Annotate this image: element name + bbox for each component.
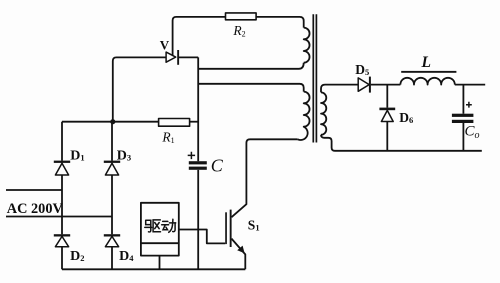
character 动 : cloud part — [163, 220, 168, 222]
plus sign of capacitor Co — [466, 102, 472, 108]
wire bridge left leg lower — [61, 247, 63, 270]
wire bridge right leg lower — [111, 247, 113, 270]
resistor R2 body — [226, 13, 257, 20]
svg-text:D4: D4 — [119, 249, 134, 264]
svg-text:V: V — [160, 37, 170, 52]
wire riser from junction dot up to V anode — [113, 57, 167, 121]
wire bottom rail — [62, 268, 245, 270]
IGBT S1 gate bar — [225, 212, 227, 244]
wire bridge right leg middle — [111, 175, 113, 234]
capacitor C bottom plate — [189, 167, 207, 170]
wire S1 emitter to bottom rail — [232, 239, 246, 270]
wire top rail left (bridge + to R1) — [62, 121, 159, 123]
wire AC input upper — [6, 189, 62, 191]
diode D3 cathode bar — [104, 161, 120, 163]
svg-text:Co: Co — [465, 124, 480, 142]
character 驱 : right part (qu) — [153, 220, 160, 232]
junction dot bridge+ — [110, 119, 115, 124]
IGBT S1 body bar — [230, 210, 232, 247]
wire D6 branch lower — [386, 122, 388, 151]
wire AC input lower — [6, 216, 112, 218]
svg-text:D5: D5 — [355, 62, 369, 77]
diode D2 triangle — [55, 236, 68, 246]
wire drive box stub to bottom rail — [159, 256, 161, 270]
plus sign of capacitor C — [188, 152, 195, 159]
capacitor Co top plate — [452, 114, 474, 117]
wire primary winding bottom lead to S1 collector — [232, 139, 298, 217]
wire bridge left leg middle — [61, 175, 63, 234]
svg-text:S1: S1 — [248, 217, 260, 232]
wire reset winding bottom lead to DC+ vertical — [198, 63, 304, 69]
transformer T1 secondary winding (right, 4 turns) — [321, 92, 326, 134]
diode D2 cathode bar — [54, 234, 70, 236]
svg-text:D6: D6 — [399, 110, 413, 125]
wire D6 branch upper — [386, 85, 388, 108]
wire secondary bottom lead and output bottom rail — [321, 135, 482, 151]
label 驱动 (drive) drawn as strokes — [145, 219, 176, 232]
diode D1 cathode bar — [54, 161, 70, 163]
resistor R1 body — [159, 119, 190, 127]
drive unit box inner line — [141, 242, 179, 244]
wire R2 right lead to reset winding top — [256, 17, 304, 28]
wire DC- vertical (capacitor C down to bottom rail) — [197, 170, 199, 269]
wire primary winding top lead from DC+ vertical — [198, 84, 304, 92]
svg-text:R1: R1 — [161, 129, 174, 145]
capacitor C top plate — [189, 161, 207, 164]
svg-text:D1: D1 — [70, 149, 84, 164]
svg-text:C: C — [211, 156, 224, 176]
wire bridge right leg upper — [111, 122, 113, 161]
wire Co branch upper — [462, 85, 464, 114]
wire bridge left leg upper — [61, 122, 63, 161]
wire D5 cathode to L input (through D6 node) — [371, 84, 401, 86]
IGBT S1 emitter arrow — [237, 246, 244, 254]
svg-text:L: L — [421, 54, 431, 71]
diode D1 triangle — [55, 163, 68, 175]
wire V cathode lead to DC+ vertical — [179, 56, 198, 58]
diode D6 cathode bar — [379, 108, 395, 111]
diode D6 triangle — [381, 110, 393, 121]
wire gate lead from drive box to S1 gate — [179, 230, 225, 244]
diode V cathode bar — [177, 50, 179, 65]
wire secondary winding top lead to D5 — [321, 85, 358, 93]
transformer T1 primary winding (bottom left, 3 turns) — [298, 92, 310, 140]
svg-text:R2: R2 — [232, 23, 245, 39]
capacitor Co bottom plate — [452, 120, 474, 123]
wire DC+ vertical (V cathode down to capacitor C) — [197, 57, 199, 161]
inductor L core bar — [401, 71, 456, 73]
diode D5 cathode bar — [369, 77, 371, 93]
character 驱 : horse radical — [146, 220, 151, 224]
transformer T1 reset winding (top left, 3 turns) — [304, 28, 310, 63]
diode D5 triangle — [358, 78, 369, 91]
transformer T1 core — [313, 14, 316, 142]
diode D3 triangle — [105, 163, 118, 175]
wire R1 right lead to DC+ vertical — [190, 121, 199, 123]
character 动 : strength part — [169, 222, 175, 224]
diode D4 cathode bar — [104, 234, 120, 236]
diode D4 triangle — [105, 236, 118, 246]
wire Co branch lower — [462, 123, 464, 151]
svg-text:AC 200V: AC 200V — [7, 201, 64, 217]
diode V triangle — [166, 52, 176, 62]
drive unit box — [141, 203, 179, 256]
wire L output to right edge — [455, 84, 485, 86]
inductor L winding — [400, 78, 454, 85]
svg-text:D3: D3 — [117, 149, 131, 164]
svg-text:D2: D2 — [70, 249, 84, 264]
wire R2 branch vertical from V anode up to top loop — [173, 17, 226, 55]
